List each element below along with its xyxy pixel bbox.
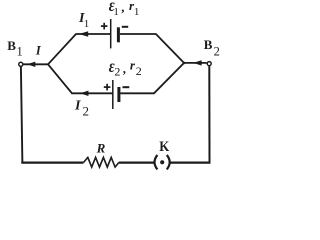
current arrow I2 [80,91,88,96]
wire battery E2 to right junction [120,62,184,93]
svg-text:1: 1 [17,45,23,59]
svg-text:B: B [7,38,16,53]
wire B1 to left junction [24,63,49,65]
svg-text:,: , [122,61,126,76]
svg-text:1: 1 [134,6,140,18]
label I2 [74,98,89,118]
battery E1 positive plate [110,19,112,48]
svg-text:2: 2 [83,104,90,119]
battery E2 negative plate [117,87,120,102]
wire right junction to B2 [183,62,207,64]
wire left junction to battery E1 [48,34,111,64]
svg-text:B: B [204,37,213,52]
wire B1 down left side [21,67,23,164]
battery E1 + label [101,23,108,30]
svg-text:2: 2 [136,64,142,78]
label B2 [204,37,220,58]
svg-text:2: 2 [214,45,220,59]
battery E1 - label [122,26,128,28]
resistor R [84,157,119,167]
current arrow I [27,62,35,67]
terminal B2 [207,62,211,66]
label ε1, r1 [109,0,140,18]
svg-text:2: 2 [114,65,120,79]
svg-text:1: 1 [113,6,119,18]
svg-text:1: 1 [84,18,90,30]
svg-text:I: I [35,44,42,58]
battery E2 - label [123,86,130,88]
svg-text:R: R [96,140,106,155]
wire battery E1 to right junction [120,34,185,64]
wire left junction to battery E2 [48,64,113,93]
label B1 [7,38,23,59]
label I1 [78,11,89,30]
wire key to resistor [119,162,154,164]
wire B2 down right side [208,66,210,164]
battery E1 negative plate [117,27,120,42]
svg-text:,: , [121,0,125,14]
svg-text:I: I [74,98,81,113]
label ε2, r2 [109,58,142,79]
battery E2 positive plate [112,80,114,109]
wire bottom right segment [171,162,211,164]
wire resistor to bottom left [21,162,83,164]
svg-text:K: K [159,139,169,155]
current arrow I1 [79,31,88,36]
battery E2 + label [104,84,111,91]
terminal B1 [19,62,23,66]
key K [155,155,170,169]
current arrow into B2 [193,60,201,65]
